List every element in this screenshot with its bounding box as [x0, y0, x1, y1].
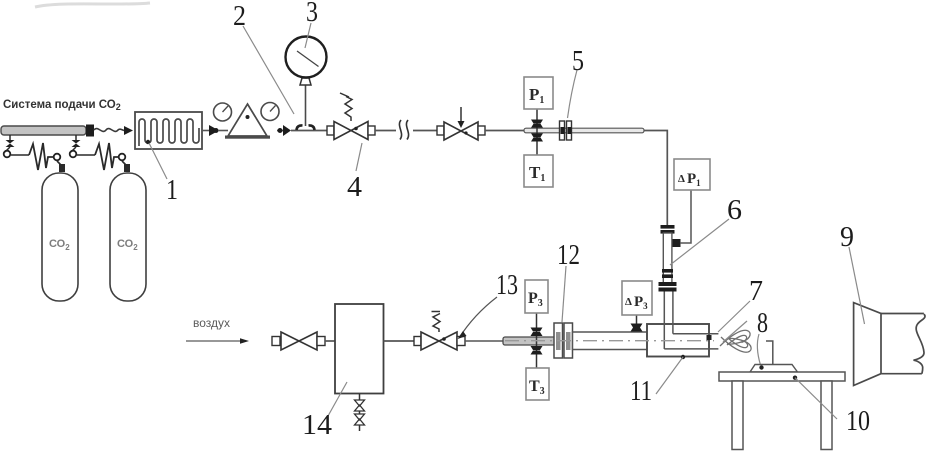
orifice 6 in vertical tube — [662, 269, 673, 278]
svg-text:Система подачи СО2: Система подачи СО2 — [3, 99, 121, 112]
leader to label 14 — [328, 382, 347, 416]
shutoff valve (hand valve) — [437, 107, 485, 140]
P1 T1 sensor tee — [531, 109, 543, 155]
leader to label 1 — [149, 143, 167, 179]
leader to label 13 with arrow — [458, 297, 498, 339]
specimen 8 on table — [750, 341, 798, 372]
leader to label 2 — [243, 26, 294, 114]
receiver 14 — [335, 304, 384, 394]
CO2 cylinder 2 — [110, 173, 146, 301]
heat exchanger 1 (coil box) — [135, 112, 202, 149]
svg-text:1: 1 — [166, 174, 178, 206]
faint scan smudge top-left — [35, 3, 150, 7]
measuring tube (thin outlined pipe) — [524, 128, 644, 133]
grey feed pipe — [503, 337, 557, 345]
svg-text:4: 4 — [347, 171, 363, 203]
dP1 tap fitting — [673, 190, 692, 247]
leader to label 9 — [849, 247, 865, 324]
instrument box dP3 — [622, 281, 652, 315]
svg-text:5: 5 — [572, 45, 584, 77]
fitting after regulator — [277, 125, 291, 136]
instrument box dP1 — [674, 159, 710, 190]
leader to label 4 — [356, 143, 362, 171]
instrument box T1 — [524, 155, 553, 187]
flexible zigzag hose 2 — [95, 143, 119, 170]
svg-text:13: 13 — [496, 269, 518, 301]
svg-text:10: 10 — [846, 405, 870, 437]
vertical measuring tube (CO2 down leg) — [663, 233, 672, 283]
svg-text:Δ: Δ — [678, 173, 685, 185]
CO2 manifold pipe — [1, 125, 94, 137]
svg-text:9: 9 — [840, 221, 854, 253]
bottom flange of vertical tube — [659, 282, 677, 292]
wire valve4 to break — [375, 130, 396, 132]
svg-text:14: 14 — [302, 409, 333, 441]
svg-text:12: 12 — [557, 239, 580, 271]
leader to label 10 — [793, 376, 837, 420]
wire main line regulator to tee — [291, 130, 330, 132]
pressure gauge 3 — [286, 37, 327, 78]
pressure regulator 2 — [214, 103, 280, 139]
svg-text:Δ: Δ — [625, 296, 632, 308]
svg-text:7: 7 — [749, 275, 763, 307]
table 10 — [719, 372, 845, 450]
leader to label 11 — [656, 355, 685, 394]
wire valve to measuring tube — [485, 130, 525, 132]
mixing tube — [573, 332, 648, 350]
check valve branch 1 under manifold — [4, 135, 29, 157]
exhaust hood 9 — [854, 303, 925, 386]
svg-text:8: 8 — [757, 307, 768, 339]
receiver drain valves — [355, 394, 365, 432]
control valve 4 — [327, 93, 375, 140]
fitting between HX and regulator — [202, 125, 228, 136]
leader to label 12 — [562, 266, 566, 322]
cylinder valve 2 — [119, 154, 130, 172]
P3 T3 sensor tee — [531, 313, 543, 368]
svg-text:11: 11 — [630, 375, 652, 407]
flexible hose from manifold to heat exchanger — [94, 126, 133, 135]
pipe break symbol — [399, 120, 408, 140]
svg-text:воздух: воздух — [193, 316, 230, 330]
cylinder valve 1 — [54, 154, 65, 172]
wire break to shutoff valve — [413, 130, 437, 132]
leader to label 5 — [568, 70, 578, 118]
wire receiver to control valve 13 — [384, 340, 416, 342]
instrument box P3 — [525, 280, 548, 313]
svg-text:2: 2 — [233, 0, 246, 32]
leader to label 8 — [757, 334, 760, 365]
mixing chamber 11 — [647, 292, 718, 357]
flange at top of vertical tube — [661, 225, 675, 234]
centerline dash-dot — [505, 340, 714, 342]
instrument box P1 — [524, 77, 553, 109]
instrument box T3 — [526, 368, 549, 400]
check valve branch 2 under manifold — [70, 135, 95, 157]
wire tube end to corner and down — [644, 131, 667, 226]
svg-text:3: 3 — [306, 0, 318, 28]
leader to label 3 — [305, 23, 311, 48]
dP3 tap — [631, 315, 643, 332]
air hand valve — [272, 332, 335, 350]
title text: Система подачи CO2 — [3, 99, 121, 112]
air inlet arrow — [186, 338, 249, 344]
svg-text:6: 6 — [727, 194, 742, 226]
wire valve13 to pipe — [465, 340, 503, 342]
leader to label 6 — [670, 219, 729, 265]
gauge 3 tee fitting — [297, 78, 315, 130]
flame 7 — [720, 330, 751, 352]
CO2 cylinder 1 — [42, 173, 78, 301]
flange 12 — [554, 323, 573, 358]
orifice flowmeter 5 — [560, 121, 572, 140]
control valve 13 — [414, 312, 465, 351]
flexible zigzag hose 1 — [29, 143, 53, 170]
leader to label 7 — [718, 301, 750, 332]
